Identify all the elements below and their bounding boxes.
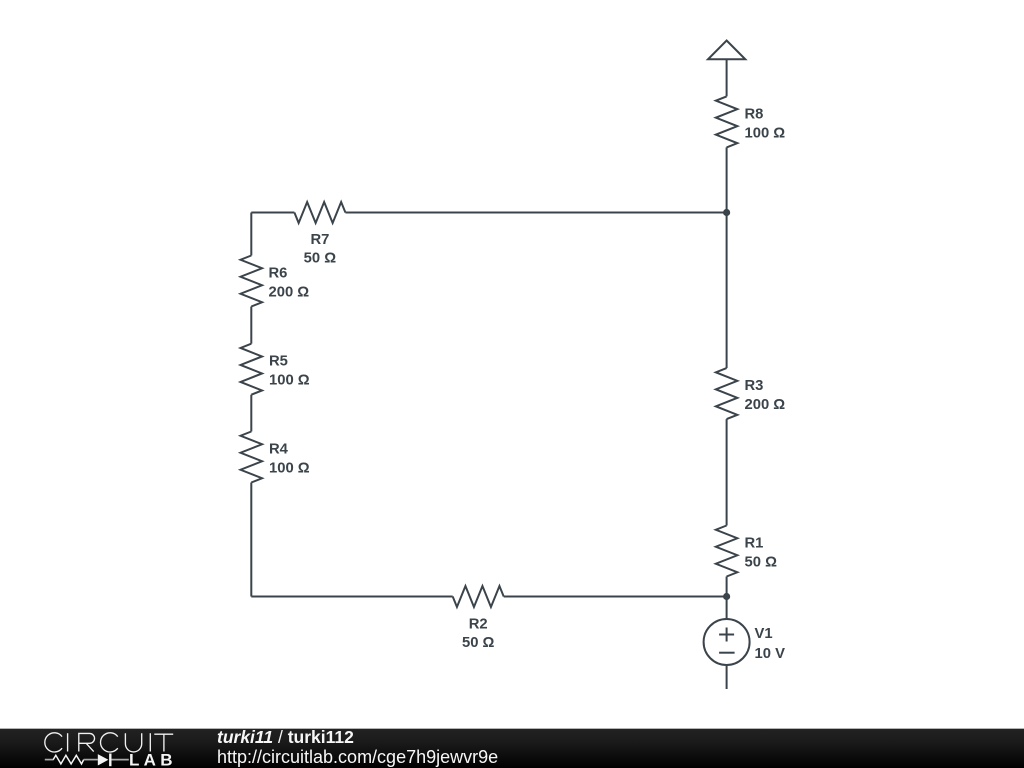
svg-text:R3: R3 (745, 378, 764, 394)
svg-text:50 Ω: 50 Ω (304, 250, 337, 266)
bottom wire right segment (504, 596, 727, 598)
wire flag to R8 (726, 59, 728, 96)
resistor R8 (716, 96, 738, 147)
svg-text:200 Ω: 200 Ω (745, 397, 786, 413)
resistor R3 (716, 368, 738, 419)
title text (217, 727, 354, 748)
svg-text:50 Ω: 50 Ω (745, 555, 778, 571)
resistor R6 (241, 256, 262, 307)
resistor R4 (241, 432, 262, 483)
svg-text:LAB: LAB (129, 751, 173, 768)
resistor R1 (716, 526, 738, 577)
logo resistor zigzag (53, 755, 83, 764)
svg-text:R5: R5 (269, 354, 288, 370)
svg-text:R7: R7 (310, 232, 329, 248)
voltage source V1 (704, 619, 750, 665)
wire below V1 (726, 665, 728, 689)
svg-text:50 Ω: 50 Ω (462, 635, 495, 651)
svg-text:R4: R4 (269, 442, 289, 458)
logo wire mid (84, 759, 98, 761)
logo letter R (79, 733, 95, 751)
logo wire right (111, 759, 128, 761)
svg-text:100 Ω: 100 Ω (269, 461, 310, 477)
svg-text:R6: R6 (269, 266, 288, 282)
left wire top to R6 (250, 213, 252, 256)
logo letter I (149, 733, 151, 751)
logo letter C (45, 733, 62, 752)
top wire left segment (251, 212, 294, 214)
resistor R5 (241, 344, 262, 395)
svg-text:100 Ω: 100 Ω (269, 373, 310, 389)
svg-text:200 Ω: 200 Ω (269, 285, 310, 301)
wire R1 to V1 (726, 577, 728, 620)
url text (217, 747, 498, 768)
svg-text:R8: R8 (745, 106, 764, 122)
logo wire left (45, 759, 54, 761)
logo diode bar (109, 754, 111, 767)
top wire right segment (345, 212, 726, 214)
logo letter I (67, 733, 69, 751)
power flag V+ (708, 41, 745, 60)
resistor R7 (294, 202, 345, 223)
junction node bottom (723, 593, 730, 600)
wire R8 to R3 (726, 147, 728, 368)
wire R4 to bottom (250, 483, 252, 597)
svg-text:R1: R1 (745, 536, 764, 552)
svg-text:R2: R2 (469, 616, 488, 632)
logo letter U (125, 733, 141, 752)
svg-text:10 V: 10 V (755, 646, 786, 662)
logo diode triangle (98, 754, 109, 765)
wire R5 to R4 (250, 395, 252, 432)
svg-text:V1: V1 (755, 626, 773, 642)
bottom wire left segment (251, 596, 452, 598)
svg-text:100 Ω: 100 Ω (745, 125, 786, 141)
logo letter T (154, 734, 173, 751)
junction node top (723, 209, 730, 216)
wire R3 to R1 (726, 419, 728, 525)
wire R6 to R5 (250, 307, 252, 344)
resistor R2 (453, 586, 504, 607)
CircuitLab logo (0, 728, 190, 768)
footer bar (0, 728, 1024, 768)
logo letter C (101, 733, 118, 752)
